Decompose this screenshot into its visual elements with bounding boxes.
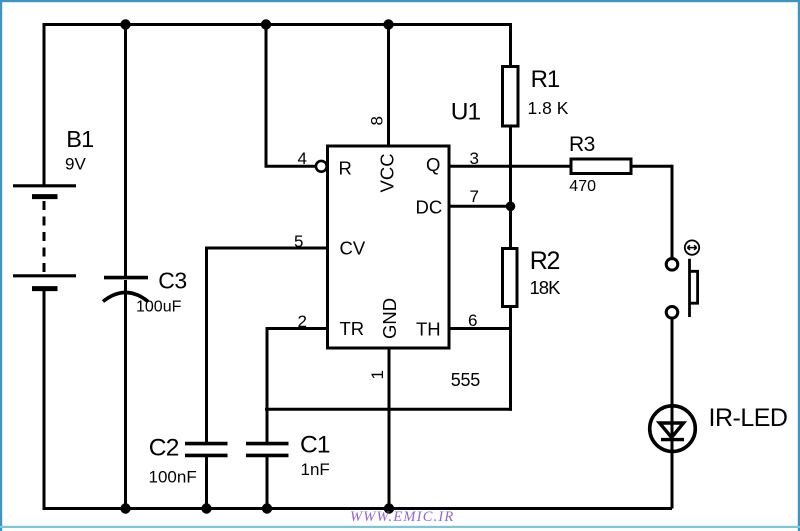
wire VCC vertical xyxy=(387,23,390,148)
junction dot top rail pin4 xyxy=(261,19,271,29)
svg-text:C2: C2 xyxy=(149,435,179,462)
wire top rail to R1 xyxy=(509,23,512,67)
wire pin4 horizontal xyxy=(265,165,317,168)
svg-text:1: 1 xyxy=(368,370,387,379)
junction dot bottom rail C3 xyxy=(120,503,130,513)
wire top rail xyxy=(43,23,511,26)
wire switch to LED and rail vertical xyxy=(671,319,674,509)
svg-text:TR: TR xyxy=(340,318,365,339)
svg-text:100nF: 100nF xyxy=(149,468,197,487)
wire battery bottom vertical xyxy=(43,288,46,510)
svg-text:1nF: 1nF xyxy=(301,460,330,479)
capacitor C1 plate top xyxy=(246,442,289,446)
wire TR pin2 horizontal xyxy=(267,327,328,330)
svg-text:R3: R3 xyxy=(569,133,595,156)
pin 4 reset bubble xyxy=(316,161,327,172)
pushbutton S1 bottom terminal xyxy=(666,307,678,319)
battery B1 short plate bottom xyxy=(32,286,58,291)
wire battery top vertical xyxy=(43,25,46,188)
svg-text:U1: U1 xyxy=(451,99,481,126)
svg-text:B1: B1 xyxy=(66,126,93,152)
svg-text:100uF: 100uF xyxy=(136,299,182,316)
wire TR to C1 vertical xyxy=(266,327,269,443)
wire C3 bottom vertical xyxy=(124,280,127,510)
svg-text:470: 470 xyxy=(569,178,596,195)
pushbutton S1 motion circle icon xyxy=(685,240,699,254)
pushbutton S1 motion arrow xyxy=(687,245,697,250)
LED D1 cathode bar xyxy=(661,438,684,441)
svg-text:555: 555 xyxy=(451,370,481,390)
battery B1 long plate top xyxy=(13,184,76,187)
resistor R2 body xyxy=(503,249,518,307)
pushbutton S1 actuator bracket xyxy=(690,271,698,303)
svg-text:C1: C1 xyxy=(300,432,330,459)
svg-text:1.8 K: 1.8 K xyxy=(528,98,569,118)
frame border left xyxy=(0,0,2,531)
frame border bottom xyxy=(0,526,800,528)
wire TH pin6 horizontal xyxy=(449,327,511,330)
wire pin6 to pin2 horizontal xyxy=(265,408,512,411)
junction dot bottom rail GND xyxy=(384,503,394,513)
svg-text:6: 6 xyxy=(468,311,477,330)
svg-text:R1: R1 xyxy=(531,66,560,93)
capacitor C3 curved plate xyxy=(103,293,148,302)
junction dot top rail VCC xyxy=(383,19,393,29)
wire R2 to TH vertical xyxy=(509,306,512,330)
capacitor C2 plate bottom xyxy=(185,454,228,458)
wire C3 top vertical xyxy=(124,23,127,277)
svg-text:Q: Q xyxy=(426,154,440,175)
svg-text:8: 8 xyxy=(368,116,387,125)
junction dot bottom rail C2 xyxy=(201,503,211,513)
svg-text:3: 3 xyxy=(470,149,479,168)
svg-text:9V: 9V xyxy=(65,155,86,174)
pushbutton S1 actuator bar xyxy=(688,259,691,317)
wire C2 to rail vertical xyxy=(205,457,208,511)
svg-text:5: 5 xyxy=(294,232,303,251)
svg-text:4: 4 xyxy=(298,149,307,168)
svg-text:CV: CV xyxy=(340,238,366,259)
svg-text:2: 2 xyxy=(298,312,307,331)
LED D1 circle xyxy=(650,406,696,452)
svg-text:TH: TH xyxy=(416,319,441,340)
svg-text:IR-LED: IR-LED xyxy=(709,404,788,432)
wire TH down vertical xyxy=(509,329,512,411)
junction dot DC node xyxy=(506,202,516,212)
svg-text:WWW.EMIC.IR: WWW.EMIC.IR xyxy=(350,509,454,525)
pushbutton S1 top terminal xyxy=(666,259,678,271)
wire DC pin7 horizontal xyxy=(449,205,511,208)
wire GND pin1 vertical xyxy=(388,346,391,510)
resistor R3 body xyxy=(571,159,631,174)
battery B1 short plate top xyxy=(32,194,58,199)
frame border right xyxy=(798,0,800,531)
junction dot top rail C3 xyxy=(120,19,130,29)
wire C1 to rail vertical xyxy=(266,457,269,511)
wire CV pin5 horizontal xyxy=(207,247,329,250)
svg-text:C3: C3 xyxy=(158,268,186,294)
capacitor C2 plate top xyxy=(185,442,228,446)
wire Q pin3 horizontal xyxy=(449,165,571,168)
wire CV to C2 vertical xyxy=(205,247,208,443)
capacitor C1 plate bottom xyxy=(246,454,289,458)
svg-text:GND: GND xyxy=(379,298,400,339)
wire R1 to R2 vertical xyxy=(509,126,512,249)
svg-text:18K: 18K xyxy=(530,277,562,298)
IC U1 555 box xyxy=(328,146,450,348)
wire bottom rail xyxy=(43,507,673,510)
svg-text:7: 7 xyxy=(470,187,479,206)
battery B1 dashed cells line xyxy=(43,201,46,273)
capacitor C3 straight plate xyxy=(104,276,148,280)
resistor R1 body xyxy=(503,67,519,127)
svg-text:R: R xyxy=(339,158,352,179)
wire switch top vertical xyxy=(671,165,674,258)
svg-text:DC: DC xyxy=(416,197,443,218)
LED D1 triangle xyxy=(660,423,684,438)
frame border top xyxy=(0,0,800,2)
junction dot bottom rail C1 xyxy=(262,503,272,513)
wire R3 to switch horizontal xyxy=(631,165,672,168)
wire pin4 vertical xyxy=(265,23,268,166)
svg-text:VCC: VCC xyxy=(377,153,398,192)
svg-text:R2: R2 xyxy=(530,247,560,275)
battery B1 long plate bottom xyxy=(13,274,76,277)
